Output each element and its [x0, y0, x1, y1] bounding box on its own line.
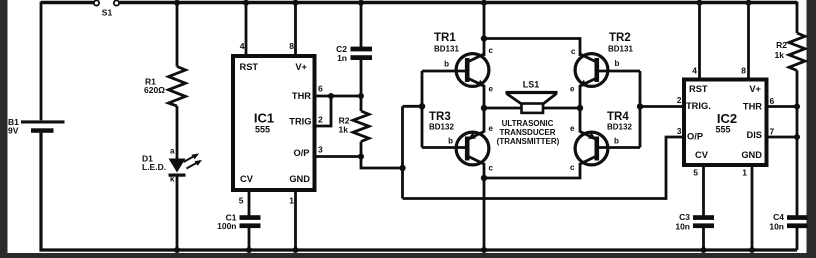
svg-text:555: 555 — [255, 125, 270, 135]
LED D1 — [142, 147, 202, 184]
svg-text:e: e — [570, 124, 575, 133]
svg-text:10n: 10n — [769, 222, 784, 232]
svg-text:2: 2 — [318, 115, 323, 125]
wire bridge bottom crossbar — [484, 163, 580, 178]
wire IC1 pin8 lead — [294, 3, 297, 57]
wire right column middle — [796, 71, 799, 217]
transistor TR4 BD132 — [570, 111, 632, 172]
svg-text:4: 4 — [692, 66, 697, 76]
svg-text:TR2: TR2 — [609, 32, 631, 44]
battery B1 9V — [8, 117, 65, 136]
svg-text:555: 555 — [715, 125, 730, 135]
wire IC2 TRIG stub — [640, 105, 684, 108]
svg-text:ULTRASONIC: ULTRASONIC — [502, 119, 554, 128]
wire TR3 base lead — [422, 146, 465, 149]
wire left column lower (battery negative lead) — [41, 133, 797, 250]
svg-text:e: e — [570, 85, 575, 94]
junction top rail at bridge feed — [481, 0, 487, 6]
svg-text:100n: 100n — [217, 221, 236, 231]
transducer LS1 — [497, 80, 560, 147]
wire TR2 emitter to transducer rail — [579, 85, 582, 108]
junction THR node — [328, 93, 334, 99]
wire C1 to bottom rail — [248, 228, 251, 250]
svg-text:1k: 1k — [775, 50, 785, 60]
wire IC2 DIS stub — [767, 136, 798, 139]
junction THR-C2 node — [358, 93, 364, 99]
capacitor C1 100n — [217, 213, 260, 231]
svg-text:C4: C4 — [773, 212, 784, 222]
svg-text:CV: CV — [695, 150, 709, 160]
svg-text:CV: CV — [240, 174, 254, 184]
wire TR1 emitter to transducer rail — [483, 85, 486, 108]
svg-text:b: b — [614, 137, 619, 146]
svg-text:e: e — [489, 124, 494, 133]
wire output cross-link bottom — [403, 137, 685, 199]
wire bridge top crossbar — [484, 39, 580, 57]
svg-text:TR1: TR1 — [434, 32, 456, 44]
svg-text:(TRANSMITTER): (TRANSMITTER) — [497, 137, 560, 146]
junction DIS right column — [794, 134, 800, 140]
wire IC1 pin1 (GND) to bottom rail — [294, 190, 297, 250]
svg-text:TRIG: TRIG — [289, 117, 311, 127]
junction drive node — [399, 165, 405, 171]
junction THR right column — [794, 104, 800, 110]
wire TR3 emitter to transducer rail — [483, 108, 486, 133]
wire right column top — [796, 2, 799, 34]
wire TR1 base lead — [422, 70, 466, 73]
wire top rail left segment — [41, 1, 94, 4]
wire pin6-pin2 link — [315, 96, 332, 126]
svg-text:R2: R2 — [776, 40, 787, 50]
junction bottom rail at IC2 pin1 — [749, 247, 755, 253]
svg-text:BD132: BD132 — [607, 123, 632, 132]
wire C4 to bottom rail — [796, 228, 799, 250]
svg-text:O/P: O/P — [293, 148, 309, 158]
svg-text:b: b — [615, 59, 620, 68]
wire IC1 pin3 O/P stub — [315, 155, 362, 158]
wire IC1 pin4 lead — [245, 3, 248, 57]
IC1 555 — [233, 41, 323, 206]
svg-text:c: c — [489, 164, 494, 173]
wire IC1 pin6 THR stub — [315, 95, 362, 98]
svg-text:BD131: BD131 — [434, 45, 459, 54]
svg-text:4: 4 — [240, 41, 245, 51]
svg-text:7: 7 — [770, 127, 775, 137]
wire IC2 pin4 lead — [698, 3, 701, 80]
wire TR4 base lead — [599, 146, 640, 149]
svg-text:BD131: BD131 — [608, 45, 633, 54]
resistor R1 620ohm — [144, 67, 186, 107]
svg-text:C3: C3 — [679, 212, 690, 222]
wire bridge top feed — [483, 3, 486, 57]
svg-text:6: 6 — [318, 84, 323, 94]
capacitor C3 10n — [675, 212, 714, 232]
svg-text:3: 3 — [677, 126, 682, 136]
wire transducer rail left — [484, 107, 522, 110]
svg-text:TR4: TR4 — [607, 111, 629, 123]
svg-text:5: 5 — [239, 196, 244, 206]
junction bottom rail at C1 — [246, 247, 252, 253]
wire transducer rail right — [543, 107, 580, 110]
svg-text:6: 6 — [770, 96, 775, 106]
svg-text:1k: 1k — [339, 125, 349, 135]
wire R1 to D1 — [176, 106, 179, 159]
junction top rail at IC2 pin4 — [697, 0, 703, 6]
resistor R2 1k (right) — [775, 33, 805, 71]
wire left column upper (battery positive lead) — [40, 2, 43, 121]
wire D1 to bottom rail — [176, 177, 179, 251]
svg-text:c: c — [571, 47, 576, 56]
wire drive node vertical — [401, 106, 404, 198]
svg-text:3: 3 — [318, 145, 323, 155]
wire IC2 pin5 lead — [702, 165, 705, 216]
wire IC2 pin1 (GND) to bottom rail — [751, 165, 754, 250]
svg-text:c: c — [570, 163, 575, 172]
svg-text:S1: S1 — [102, 8, 113, 18]
svg-text:8: 8 — [289, 41, 294, 51]
switch S1 — [94, 0, 119, 17]
wire IC2 pin8 lead — [747, 3, 750, 80]
svg-text:RST: RST — [240, 62, 259, 72]
IC2 555 — [677, 66, 775, 178]
svg-text:V+: V+ — [749, 84, 761, 94]
wire C2 top lead — [360, 3, 363, 48]
svg-text:TRANSDUCER: TRANSDUCER — [500, 128, 556, 137]
wire TR2 base lead — [599, 70, 640, 73]
junction top rail at IC1 pin4 — [243, 0, 249, 6]
svg-text:2: 2 — [677, 95, 682, 105]
svg-text:THR: THR — [743, 102, 762, 112]
svg-text:1: 1 — [742, 168, 747, 178]
svg-text:a: a — [170, 147, 175, 156]
wire IC2 THR stub — [767, 105, 798, 108]
svg-text:5: 5 — [693, 168, 698, 178]
wire C2 to THR node — [360, 60, 363, 112]
svg-text:c: c — [489, 46, 494, 55]
svg-text:1n: 1n — [337, 53, 347, 63]
svg-text:RST: RST — [689, 84, 708, 94]
junction transducer rail left — [481, 105, 487, 111]
svg-text:O/P: O/P — [687, 132, 703, 142]
junction transducer rail right — [577, 105, 583, 111]
junction bridge top — [481, 35, 487, 41]
svg-text:8: 8 — [741, 66, 746, 76]
svg-text:e: e — [489, 85, 494, 94]
transistor TR1 BD131 — [434, 32, 494, 94]
svg-text:b: b — [448, 137, 453, 146]
junction top rail at IC2 pin8 — [746, 0, 752, 6]
svg-text:THR: THR — [292, 91, 311, 101]
wire right bases vertical — [639, 71, 642, 148]
svg-text:IC1: IC1 — [254, 111, 274, 126]
junction top rail at R1 — [174, 0, 180, 6]
junction right bases node — [637, 103, 643, 109]
junction bottom rail at D1 — [174, 247, 180, 253]
svg-text:10n: 10n — [675, 222, 690, 232]
svg-text:620Ω: 620Ω — [144, 85, 165, 95]
wire TR4 emitter to transducer rail — [579, 108, 582, 133]
junction left bases node — [419, 103, 425, 109]
wire C3 to bottom rail — [702, 228, 705, 250]
svg-text:GND: GND — [289, 174, 310, 184]
svg-text:GND: GND — [741, 150, 762, 160]
junction bottom rail at C3 — [701, 247, 707, 253]
wire top rail main segment — [120, 1, 798, 4]
svg-text:k: k — [170, 175, 175, 184]
wire R1 top lead — [176, 3, 179, 67]
svg-text:9V: 9V — [8, 126, 19, 136]
svg-text:TRIG.: TRIG. — [686, 101, 711, 111]
wire IC1 pin5 lead — [248, 190, 251, 216]
junction top rail at IC1 pin8 — [293, 0, 299, 6]
svg-text:BD132: BD132 — [429, 123, 454, 132]
junction top rail at C2 — [358, 0, 364, 6]
svg-text:LS1: LS1 — [523, 80, 540, 90]
junction bottom rail at bridge — [481, 247, 487, 253]
svg-text:DIS: DIS — [747, 130, 763, 140]
svg-text:1: 1 — [289, 196, 294, 206]
resistor R2 1k — [339, 111, 369, 142]
svg-text:b: b — [444, 60, 449, 69]
capacitor C2 1n — [336, 44, 372, 63]
transistor TR3 BD132 — [429, 111, 494, 173]
wire drive node to left bases — [403, 105, 423, 108]
svg-text:TR3: TR3 — [429, 111, 451, 123]
transistor TR2 BD131 — [570, 32, 633, 94]
junction O/P stub node — [358, 154, 364, 160]
wire left bases vertical — [421, 71, 424, 148]
svg-text:V+: V+ — [295, 62, 307, 72]
junction bottom rail at IC1 pin1 — [293, 247, 299, 253]
junction bridge bottom — [481, 175, 487, 181]
svg-text:L.E.D.: L.E.D. — [142, 162, 166, 172]
wire R2 bottom to O/P node — [361, 142, 403, 169]
wire TR3 collector down — [483, 163, 486, 250]
capacitor C4 10n — [769, 212, 807, 232]
